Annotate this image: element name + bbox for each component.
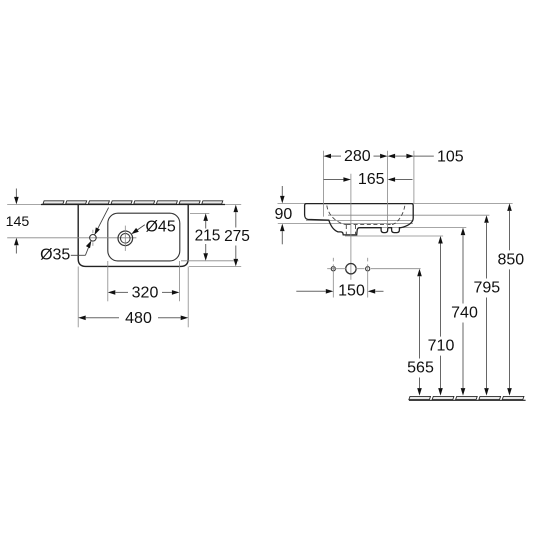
- svg-text:90: 90: [275, 206, 293, 223]
- svg-text:150: 150: [338, 283, 365, 300]
- inner bowl outline (plan): [108, 213, 180, 261]
- dimension 215: [181, 213, 239, 260]
- extension line 280 right / 165 right: [387, 151, 389, 228]
- hidden bowl contour (dashed): [327, 206, 405, 235]
- long reference line basin top / 850: [278, 202, 513, 204]
- floor hatch bar: [409, 396, 524, 399]
- svg-text:565: 565: [407, 360, 434, 377]
- dimension 480: [78, 267, 188, 328]
- dimension 565: [407, 269, 434, 396]
- centre axis tap hole (elevation): [350, 174, 352, 280]
- svg-text:Ø35: Ø35: [40, 247, 70, 264]
- svg-text:795: 795: [473, 280, 500, 297]
- label O35 with leader: [40, 208, 109, 264]
- svg-text:320: 320: [132, 284, 159, 301]
- reference line 740: [358, 227, 466, 229]
- reference line 795: [328, 214, 489, 216]
- svg-text:165: 165: [358, 171, 385, 188]
- dimension 105: [388, 148, 464, 165]
- drain circles diam45 (plan): [118, 226, 133, 251]
- svg-text:280: 280: [344, 148, 371, 165]
- dimension 280: [324, 148, 388, 165]
- svg-text:145: 145: [6, 214, 30, 230]
- dimension 710: [428, 236, 455, 396]
- dimension 320: [108, 261, 180, 301]
- washbasin outer outline (plan): [78, 205, 188, 267]
- svg-text:710: 710: [428, 338, 455, 355]
- dimension 275: [189, 205, 250, 267]
- dimension 165: [324, 171, 413, 188]
- basin profile outline (elevation): [305, 204, 414, 235]
- dimension 90: [275, 186, 293, 244]
- svg-text:850: 850: [497, 251, 524, 268]
- fixing holes (elevation): [327, 258, 370, 298]
- extension line 105 right: [413, 151, 415, 204]
- floor line: [409, 399, 526, 401]
- svg-text:Ø45: Ø45: [145, 219, 175, 236]
- wall hatch bar (plan view top): [43, 201, 223, 204]
- dimension 850: [497, 203, 524, 395]
- dimension 145: [6, 189, 30, 254]
- dimension 795: [473, 215, 500, 395]
- reference line rim inner bottom: [306, 220, 413, 222]
- svg-text:105: 105: [437, 148, 464, 165]
- svg-text:275: 275: [224, 228, 250, 245]
- wall face line (plan): [7, 204, 241, 206]
- reference line 90 bottom: [278, 223, 413, 225]
- label O45 with leader: [131, 219, 176, 236]
- dimension 150: [296, 283, 383, 300]
- hole centre line (plan): [7, 237, 136, 239]
- dimension 740: [451, 228, 478, 396]
- reference line 710: [345, 235, 443, 237]
- reference line 565 / holes centre: [371, 268, 421, 270]
- tap hole circle diam35 (plan): [90, 230, 97, 246]
- extension line 280 left: [323, 151, 325, 217]
- svg-text:215: 215: [195, 228, 221, 245]
- svg-text:480: 480: [125, 310, 152, 327]
- svg-text:740: 740: [451, 305, 478, 322]
